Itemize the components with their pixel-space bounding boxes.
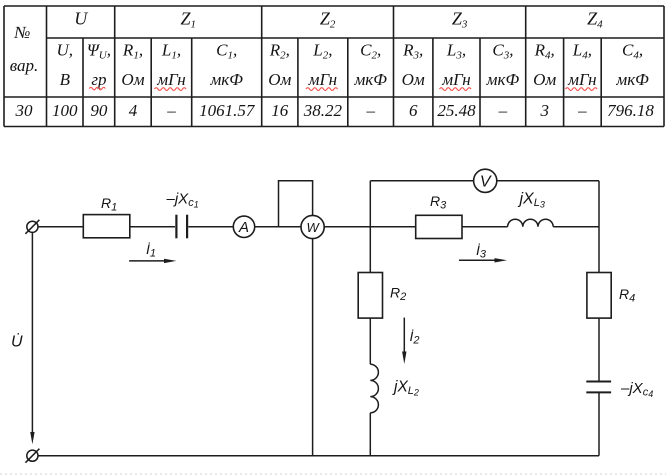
wire: left rail with source arrow bbox=[30, 232, 34, 444]
svg-text:İ1: İ1 bbox=[146, 241, 156, 260]
svg-text:İ2: İ2 bbox=[410, 328, 420, 347]
svg-text:C2,: C2, bbox=[360, 41, 381, 62]
svg-text:L2,: L2, bbox=[312, 41, 332, 62]
svg-text:6: 6 bbox=[409, 101, 418, 120]
terminal (input, top) bbox=[25, 220, 39, 234]
svg-text:мГн: мГн bbox=[308, 70, 337, 89]
svg-text:90: 90 bbox=[90, 101, 108, 120]
svg-text:R4: R4 bbox=[619, 286, 635, 305]
svg-text:30: 30 bbox=[15, 101, 34, 120]
svg-text:4: 4 bbox=[129, 101, 138, 120]
svg-text:№: № bbox=[13, 23, 30, 42]
wire: R1 to C1 bbox=[130, 226, 175, 228]
wire: wattmeter voltage coil to bottom rail bbox=[312, 239, 314, 456]
wire: top rail right of voltmeter bbox=[497, 180, 599, 182]
table grid bbox=[4, 6, 664, 127]
svg-text:мкФ: мкФ bbox=[615, 70, 649, 89]
svg-text:R1: R1 bbox=[101, 195, 117, 214]
svg-text:796.18: 796.18 bbox=[607, 101, 654, 120]
wire: C4 to bottom rail bbox=[598, 392, 600, 455]
svg-text:R3: R3 bbox=[430, 193, 447, 212]
svg-text:16: 16 bbox=[271, 101, 289, 120]
page break dotted line bbox=[0, 473, 666, 475]
svg-text:L1,: L1, bbox=[161, 41, 181, 62]
svg-text:W: W bbox=[306, 220, 320, 235]
svg-text:R3,: R3, bbox=[402, 41, 423, 62]
svg-text:İ3: İ3 bbox=[476, 242, 487, 261]
svg-text:мкФ: мкФ bbox=[353, 70, 387, 89]
svg-text:L3,: L3, bbox=[446, 41, 466, 62]
wire: L2 to bottom rail bbox=[369, 413, 371, 456]
svg-text:jXL3: jXL3 bbox=[518, 191, 545, 210]
svg-text:R1,: R1, bbox=[122, 41, 143, 62]
resistor R1 bbox=[83, 195, 130, 238]
svg-text:25.48: 25.48 bbox=[437, 101, 476, 120]
current arrow I1 bbox=[129, 241, 176, 263]
svg-text:–: – bbox=[498, 101, 508, 120]
svg-text:мкФ: мкФ bbox=[486, 70, 520, 89]
svg-text:38.22: 38.22 bbox=[303, 101, 343, 120]
wire: top terminal to R1 bbox=[38, 226, 83, 228]
svg-text:Z2: Z2 bbox=[320, 9, 336, 31]
svg-text:мГн: мГн bbox=[156, 70, 185, 89]
svg-text:мГн: мГн bbox=[441, 70, 470, 89]
table data row bbox=[15, 101, 655, 120]
ammeter A bbox=[233, 216, 254, 237]
current arrow I3 bbox=[459, 242, 507, 263]
spellcheck squiggles bbox=[89, 87, 597, 90]
svg-text:гр: гр bbox=[91, 70, 106, 89]
svg-text:–: – bbox=[577, 101, 587, 120]
current arrow I2 bbox=[402, 318, 419, 364]
svg-text:U̇: U̇ bbox=[11, 332, 23, 350]
capacitor C1 (-jXc1) bbox=[166, 191, 199, 239]
resistor R3 bbox=[416, 193, 462, 239]
wire: R4 to C4 bbox=[598, 318, 600, 381]
wire: node vertical (top rail to R2 branch) bbox=[369, 181, 371, 273]
svg-text:В: В bbox=[60, 70, 71, 89]
svg-text:–: – bbox=[166, 101, 176, 120]
terminal (input, bottom) bbox=[25, 449, 39, 463]
wattmeter W bbox=[301, 215, 324, 238]
svg-text:вар.: вар. bbox=[10, 56, 39, 75]
wire: wattmeter to R3 (through node at x=370) bbox=[324, 226, 416, 228]
voltmeter V bbox=[474, 169, 497, 192]
wire: R2 to L2 bbox=[369, 318, 371, 364]
svg-text:ΨU,: ΨU, bbox=[87, 41, 111, 62]
svg-text:Ом: Ом bbox=[121, 70, 144, 89]
svg-text:100: 100 bbox=[52, 101, 78, 120]
svg-text:A: A bbox=[238, 219, 249, 236]
svg-text:3: 3 bbox=[539, 101, 549, 120]
svg-text:Ом: Ом bbox=[268, 70, 291, 89]
svg-text:Z4: Z4 bbox=[587, 9, 603, 31]
svg-text:V: V bbox=[480, 173, 492, 190]
svg-text:–: – bbox=[365, 101, 375, 120]
svg-text:R2: R2 bbox=[390, 285, 406, 304]
wire: ammeter to wattmeter bbox=[255, 226, 301, 228]
svg-text:мкФ: мкФ bbox=[209, 70, 243, 89]
resistor R2 bbox=[358, 273, 406, 319]
table header text bbox=[10, 9, 649, 90]
svg-text:L4,: L4, bbox=[572, 41, 592, 62]
inductor L3 (jXL3) bbox=[508, 191, 554, 227]
svg-text:1061.57: 1061.57 bbox=[199, 101, 256, 120]
svg-text:C1,: C1, bbox=[216, 41, 237, 62]
svg-text:U,: U, bbox=[57, 41, 74, 60]
wire: top rail left of voltmeter bbox=[370, 180, 473, 182]
svg-text:R2,: R2, bbox=[269, 41, 290, 62]
svg-text:jXL2: jXL2 bbox=[392, 379, 419, 398]
wire: bottom rail bbox=[38, 455, 599, 457]
svg-text:R4,: R4, bbox=[534, 41, 555, 62]
inductor L2 (jXL2) bbox=[370, 364, 419, 413]
wattmeter current coil loop bbox=[279, 181, 313, 227]
svg-text:–jXc4: –jXc4 bbox=[620, 380, 653, 399]
svg-text:Ом: Ом bbox=[533, 70, 556, 89]
svg-text:–jXc1: –jXc1 bbox=[166, 191, 199, 210]
wire: C1 to ammeter bbox=[188, 226, 233, 228]
svg-text:Z1: Z1 bbox=[180, 9, 196, 31]
svg-text:Ом: Ом bbox=[402, 70, 425, 89]
wire: L3 to right rail bbox=[553, 226, 599, 228]
svg-text:U: U bbox=[74, 9, 88, 29]
wire: R3 to L3 bbox=[462, 226, 508, 228]
capacitor C4 (-jXc4) bbox=[586, 380, 653, 399]
svg-text:C3,: C3, bbox=[492, 41, 513, 62]
svg-text:C4,: C4, bbox=[622, 41, 643, 62]
svg-text:Z3: Z3 bbox=[452, 9, 468, 31]
resistor R4 bbox=[587, 273, 635, 319]
svg-text:мГн: мГн bbox=[567, 70, 596, 89]
wire: right rail vertical (top rail to R4) bbox=[598, 181, 600, 273]
